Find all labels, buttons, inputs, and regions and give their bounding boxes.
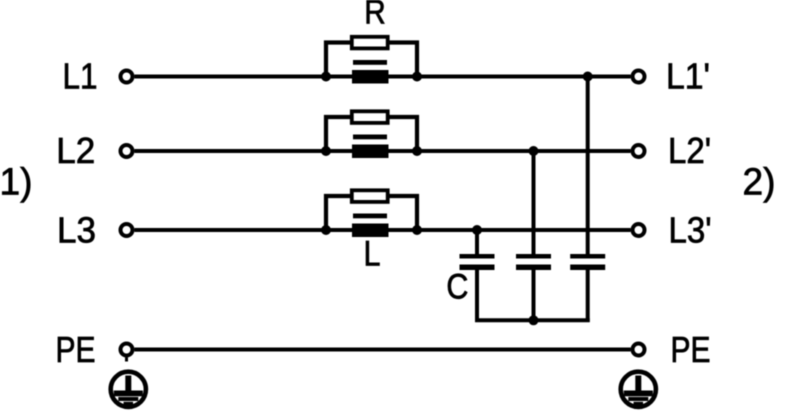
capacitor C2 top plate xyxy=(516,254,551,259)
capacitor C1 bottom plate xyxy=(460,265,495,271)
terminal L2' right xyxy=(633,145,645,157)
junction dot L2 left xyxy=(321,146,331,156)
wire drop from L2 to capacitor 2 xyxy=(532,151,536,254)
earth symbol left: stem xyxy=(125,376,131,392)
wire L2 xyxy=(135,149,631,153)
RL combo on L1: bracket xyxy=(326,43,417,77)
earth symbol right: bar 2 xyxy=(628,397,648,401)
wire below C3 xyxy=(586,270,590,322)
wire drop from L1 to capacitor 3 xyxy=(586,77,590,255)
svg-text:C: C xyxy=(446,268,468,307)
junction dot on L3 at drop xyxy=(472,225,482,235)
svg-text:L2': L2' xyxy=(668,130,711,171)
capacitor C1 top plate xyxy=(460,254,495,259)
inductor (L2 choke) xyxy=(352,145,389,159)
earth symbol right: bar 3 xyxy=(634,402,644,405)
svg-text:L3': L3' xyxy=(669,209,712,250)
svg-text:1): 1) xyxy=(0,162,33,204)
terminal PE left xyxy=(121,344,133,356)
capacitor C2 bottom plate xyxy=(516,265,551,271)
junction dot on bus xyxy=(529,315,539,325)
svg-text:L3: L3 xyxy=(57,209,96,250)
inductor (L1 choke) xyxy=(352,70,389,84)
terminal PE right xyxy=(633,344,645,356)
resistor (L2) xyxy=(352,111,388,123)
terminal L3 left xyxy=(121,224,133,236)
wire L3 xyxy=(135,228,631,232)
RL combo on L2: bracket xyxy=(326,117,417,151)
earth symbol right: bar 1 xyxy=(624,391,653,397)
inductor L (L3 choke) xyxy=(352,224,389,238)
junction dot on L2 at drop xyxy=(529,146,539,156)
terminal L1' right xyxy=(633,71,645,83)
junction dot L2 right xyxy=(412,146,422,156)
earth symbol right: circle xyxy=(621,372,656,407)
terminal L2 left xyxy=(121,145,133,157)
svg-text:R: R xyxy=(364,0,386,32)
terminal L3' right xyxy=(633,224,645,236)
svg-text:L1: L1 xyxy=(63,56,98,97)
wire L1 xyxy=(135,75,631,79)
svg-text:L2: L2 xyxy=(56,130,95,171)
earth symbol left: bar 2 xyxy=(118,397,138,401)
wire below C1 xyxy=(475,270,479,322)
resistor (L3) xyxy=(352,190,388,202)
stub below PE left terminal xyxy=(125,358,128,362)
core bar (L3 choke) xyxy=(353,214,387,219)
capacitor C3 top plate xyxy=(570,254,605,259)
core bar (L1 choke) xyxy=(353,60,387,65)
wire below C2 xyxy=(532,270,536,322)
star-point bus wire xyxy=(475,318,590,322)
junction dot L1 right xyxy=(412,72,422,82)
svg-text:PE: PE xyxy=(671,329,711,370)
wire PE xyxy=(135,348,631,352)
svg-text:L: L xyxy=(364,235,381,274)
wire drop from L3 to capacitor 1 xyxy=(475,230,479,254)
junction dot on L1 at drop xyxy=(583,72,593,82)
svg-text:L1': L1' xyxy=(666,56,710,97)
capacitor C3 bottom plate xyxy=(570,265,605,271)
RL combo on L3: bracket xyxy=(326,196,417,230)
earth symbol left: bar 1 xyxy=(114,391,143,397)
earth symbol left: bar 3 xyxy=(124,402,134,405)
junction dot L3 right xyxy=(412,225,422,235)
core bar (L2 choke) xyxy=(353,135,387,140)
svg-text:2): 2) xyxy=(743,162,776,204)
earth symbol right: stem xyxy=(635,376,641,392)
terminal L1 left xyxy=(121,71,133,83)
junction dot L3 left xyxy=(321,225,331,235)
resistor R (L1) xyxy=(352,37,388,49)
junction dot L1 left xyxy=(321,72,331,82)
earth symbol left: circle xyxy=(111,372,146,407)
svg-text:PE: PE xyxy=(56,329,96,370)
